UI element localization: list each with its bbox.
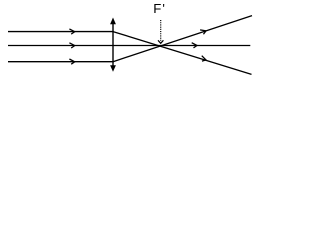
incident ray 3 (bottom parallel ray) bbox=[8, 61, 114, 63]
refracted ray from top (goes down through focal point F') bbox=[113, 32, 252, 75]
svg-text:F': F' bbox=[153, 1, 166, 16]
arrowhead on downward refracted ray bbox=[200, 56, 207, 63]
converging lens (vertical double-headed arrow) bbox=[110, 18, 116, 72]
arrowhead of leader (points down at focal point F') bbox=[158, 40, 163, 43]
refracted ray from bottom (goes up through focal point F') bbox=[113, 16, 252, 62]
incident ray 1 (top parallel ray) bbox=[8, 31, 114, 33]
arrowhead on middle refracted ray bbox=[192, 43, 197, 48]
incident ray 2 (middle axial ray) bbox=[8, 45, 114, 47]
arrowhead on incident ray 2 bbox=[69, 43, 74, 48]
arrowhead on incident ray 1 bbox=[69, 29, 74, 34]
dotted leader line from F' label down to focal point bbox=[160, 20, 162, 41]
refracted ray middle (straight through, undeviated) bbox=[113, 45, 250, 47]
arrowhead on upward refracted ray bbox=[200, 28, 207, 35]
arrowhead on incident ray 3 bbox=[69, 59, 74, 64]
